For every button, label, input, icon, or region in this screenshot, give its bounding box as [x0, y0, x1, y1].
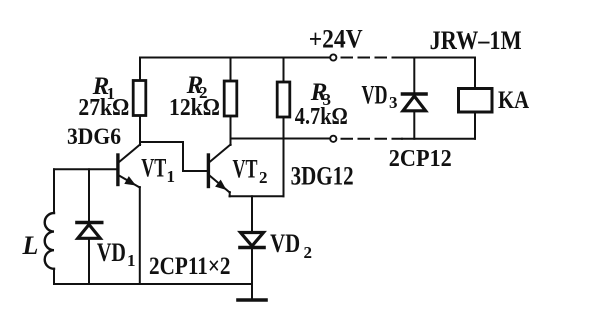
svg-text:VD: VD — [362, 81, 388, 110]
VD1 triangle — [78, 225, 100, 239]
inductor L — [45, 213, 54, 269]
wire left loop top (L to VT1 base) — [53, 169, 55, 213]
wire L bottom lead — [53, 269, 55, 284]
wire VD2 top lead — [251, 196, 253, 232]
resistor R2 — [224, 81, 237, 116]
VD3 triangle — [403, 96, 426, 111]
svg-text:4.7kΩ: 4.7kΩ — [295, 104, 348, 130]
VT2 emitter diagonal — [210, 176, 230, 193]
wire bottom rail — [54, 283, 252, 285]
svg-text:2CP12: 2CP12 — [389, 146, 452, 172]
VD2 cathode bar — [240, 246, 264, 250]
svg-text:VT: VT — [141, 154, 166, 183]
svg-text:KA: KA — [498, 87, 529, 114]
VT1 base bar — [116, 155, 119, 185]
wire VT2 collector rail to terminal — [231, 138, 331, 140]
svg-text:12kΩ: 12kΩ — [169, 95, 220, 121]
svg-text:3: 3 — [389, 93, 398, 112]
wire R1 top lead — [139, 58, 141, 81]
svg-text:+24V: +24V — [309, 25, 363, 54]
svg-text:JRW–1M: JRW–1M — [430, 26, 522, 55]
wire VD3 top lead — [413, 58, 415, 95]
wire R3 bottom lead down to emitter line — [283, 117, 285, 196]
VT1 collector diagonal — [119, 145, 141, 163]
wire VT2 base lead — [183, 170, 207, 172]
svg-text:2: 2 — [304, 243, 313, 262]
VT2 base bar — [207, 155, 210, 187]
wire R3 top lead — [283, 58, 285, 83]
VT1 emitter arrow — [124, 176, 136, 185]
VD2 triangle — [241, 233, 264, 247]
VT2 emitter arrow — [215, 180, 226, 190]
wire relay bottom lead — [474, 112, 476, 139]
svg-text:1: 1 — [167, 167, 176, 186]
resistor R1 — [133, 81, 146, 116]
svg-text:VT: VT — [233, 155, 258, 184]
wire relay top rail — [401, 57, 475, 59]
wire bottom dashed link — [342, 138, 403, 140]
diode VD2 — [240, 233, 264, 248]
wire VD1 branch vertical — [88, 169, 90, 284]
svg-text:2CP11×2: 2CP11×2 — [149, 253, 231, 280]
wire relay right drop — [474, 58, 476, 89]
relay coil KA box — [459, 89, 493, 113]
wire relay bottom rail — [402, 138, 475, 140]
transistor Q2 VT2 — [208, 145, 230, 197]
VD1 cathode bar — [77, 221, 102, 225]
svg-text:2: 2 — [259, 168, 268, 187]
ground — [238, 298, 266, 302]
wire R1 bottom lead to VT1 collector node — [139, 116, 141, 146]
svg-text:27kΩ: 27kΩ — [78, 95, 129, 121]
wire VT1 collector to VT2 base (horizontal) — [140, 141, 183, 143]
transistor Q1 VT1 — [54, 145, 140, 188]
wire VT1 emitter vertical — [139, 187, 141, 284]
svg-text:1: 1 — [127, 251, 136, 270]
node bottom terminal circle — [330, 136, 336, 142]
wire VD2 bottom lead — [251, 248, 253, 300]
wire top +24V rail — [140, 57, 330, 59]
wire VT2 emitter horizontal — [230, 195, 284, 197]
resistor R3 — [277, 82, 290, 117]
VT2 collector diagonal — [209, 145, 231, 163]
diode VD1 — [77, 223, 102, 239]
svg-text:VD: VD — [97, 238, 126, 267]
node top terminal circle — [330, 54, 336, 60]
wire VD3 bottom lead — [413, 111, 415, 139]
svg-text:L: L — [22, 231, 39, 260]
wire R2 bottom lead to VT2 collector node — [230, 116, 232, 145]
VD3 cathode bar — [403, 92, 427, 96]
svg-text:3DG12: 3DG12 — [291, 162, 354, 191]
wire top dashed link — [342, 57, 403, 59]
VT1 base lead — [54, 168, 116, 170]
svg-text:VD: VD — [270, 229, 300, 258]
wire R2 top lead — [230, 58, 232, 82]
svg-text:3DG6: 3DG6 — [67, 124, 121, 149]
VT1 emitter diagonal — [119, 176, 140, 188]
diode VD3 — [403, 94, 427, 111]
wire VT1-VT2 coupling vertical — [182, 142, 184, 171]
